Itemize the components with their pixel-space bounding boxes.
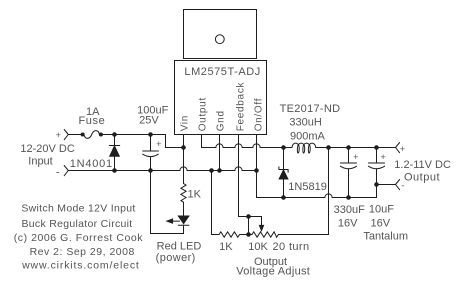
wire hop over Feedback line xyxy=(235,167,242,171)
wire: pot right end to Vout rail xyxy=(278,148,328,235)
svg-text:Rev 2: Sep 29, 2008: Rev 2: Sep 29, 2008 xyxy=(30,246,135,258)
svg-text:Switch Mode 12V Input: Switch Mode 12V Input xyxy=(21,203,135,215)
svg-text:TE2017-ND: TE2017-ND xyxy=(280,103,341,115)
svg-text:330uH: 330uH xyxy=(289,116,321,128)
svg-text:25V: 25V xyxy=(139,115,159,127)
node: C3 top on Vout rail xyxy=(375,146,379,150)
svg-text:900mA: 900mA xyxy=(290,130,326,142)
node: C3 bottom / output minus junction xyxy=(375,183,379,187)
svg-text:Buck Regulator Circuit: Buck Regulator Circuit xyxy=(21,218,132,230)
node: C2 bottom on lower ground xyxy=(347,196,351,200)
pot wiper arrow xyxy=(261,217,263,227)
svg-text:16V: 16V xyxy=(371,218,391,230)
capacitor C3 10uF 16V tantalum xyxy=(376,148,378,164)
node: R2 riser on ground rail xyxy=(210,169,214,173)
input - terminal xyxy=(64,166,68,176)
node: On/Off pin junction xyxy=(255,169,259,173)
node: FB junction branch xyxy=(247,215,251,219)
svg-text:16V: 16V xyxy=(338,218,358,230)
svg-text:Output: Output xyxy=(404,171,440,183)
inductor L1 330uH xyxy=(292,143,317,153)
wire: LED return to ground xyxy=(151,171,184,234)
node: pot riser on Vout rail xyxy=(327,146,331,150)
node: C1 top junction xyxy=(149,133,153,137)
node: Vin pin junction xyxy=(182,146,186,150)
input + terminal xyxy=(64,130,68,140)
svg-text:Input: Input xyxy=(28,155,52,167)
IC pin 2 Output wire and switch-node rail with hops xyxy=(202,135,216,148)
fuse F1 1A xyxy=(84,131,99,139)
op-amp U1 LM2575T-ADJ body xyxy=(175,61,267,135)
ground rail to On/Off pin xyxy=(242,170,256,172)
wire: input + terminal to fuse xyxy=(68,134,81,136)
ground rail continues to FB hop xyxy=(187,170,235,172)
wire hop over Vin line xyxy=(180,167,187,171)
wire: branch down to divider junction xyxy=(248,217,250,235)
svg-text:1K: 1K xyxy=(219,241,233,253)
node: divider junction xyxy=(247,233,251,237)
IC pin 5 On/Off wire xyxy=(256,135,258,171)
diode D1 1N4001 (reverse protection) xyxy=(114,135,116,146)
svg-text:(power): (power) xyxy=(156,252,196,264)
IC pin 3 Gnd wire xyxy=(219,135,221,171)
svg-text:+: + xyxy=(380,152,385,162)
svg-text:LM2575T-ADJ: LM2575T-ADJ xyxy=(184,66,260,78)
LED arrow xyxy=(171,220,180,222)
svg-text:1N5819: 1N5819 xyxy=(288,181,327,193)
output - terminal xyxy=(396,180,400,190)
IC pin 4 Feedback wire xyxy=(238,135,240,217)
svg-text:330uF: 330uF xyxy=(334,204,365,216)
svg-text:12-20V DC: 12-20V DC xyxy=(20,143,74,155)
Vout rail after inductor xyxy=(317,147,395,149)
ground rail jog down and right xyxy=(257,171,325,198)
output + terminal xyxy=(396,143,400,153)
svg-text:20 turn: 20 turn xyxy=(272,241,309,253)
node: C1 bottom / LED return junction xyxy=(149,169,153,173)
svg-text:+: + xyxy=(56,130,61,140)
node: D2 cathode on switch rail xyxy=(282,146,286,150)
svg-text:Tantalum: Tantalum xyxy=(363,231,408,243)
wire hop over pot-to-Vout riser xyxy=(325,194,332,198)
resistor R1 1K (LED series) xyxy=(181,184,186,217)
wire: to output - terminal xyxy=(377,184,396,186)
svg-text:10uF: 10uF xyxy=(369,204,394,216)
node: D2 anode on lower ground xyxy=(282,196,286,200)
ground rail (input minus) xyxy=(68,170,180,172)
svg-text:1K: 1K xyxy=(188,188,202,200)
node: Gnd pin on ground rail xyxy=(218,169,222,173)
diode D2 1N5819 (catch diode) xyxy=(283,148,285,170)
svg-text:(c) 2006 G. Forrest Cook: (c) 2006 G. Forrest Cook xyxy=(14,232,144,244)
svg-text:10K: 10K xyxy=(248,241,268,253)
IC U1 tab hole xyxy=(215,35,224,44)
svg-text:-: - xyxy=(56,166,60,178)
svg-text:+: + xyxy=(353,152,358,162)
node: diode D1 top junction xyxy=(113,133,117,137)
svg-text:Output: Output xyxy=(198,97,209,131)
svg-text:Fuse: Fuse xyxy=(78,115,105,127)
svg-text:Vin: Vin xyxy=(179,115,190,131)
resistor R2 1K (feedback lower) xyxy=(212,171,220,235)
svg-text:Voltage Adjust: Voltage Adjust xyxy=(236,266,310,278)
svg-text:Gnd: Gnd xyxy=(216,110,227,131)
capacitor C2 330uF 16V xyxy=(348,148,350,164)
wire: FB pin to wiper xyxy=(239,216,262,218)
node: C2 top on Vout rail xyxy=(347,146,351,150)
potentiometer R3 10K 20 turn xyxy=(252,232,278,237)
wire: fuse to Vin feed jog xyxy=(102,135,183,148)
svg-text:1N4001: 1N4001 xyxy=(70,158,113,170)
svg-text:+: + xyxy=(400,144,405,154)
svg-text:Feedback: Feedback xyxy=(235,81,246,131)
svg-text:Red LED: Red LED xyxy=(157,241,202,253)
svg-text:1.2-11V DC: 1.2-11V DC xyxy=(394,159,451,171)
lower ground to output minus riser xyxy=(332,185,376,198)
svg-text:www.cirkits.com/elect: www.cirkits.com/elect xyxy=(21,259,140,271)
svg-text:On/Off: On/Off xyxy=(254,98,265,131)
LED D3 red xyxy=(178,216,189,224)
IC U1 tab (TO-220 heatsink tab) xyxy=(184,10,257,59)
IC pin 1 Vin wire xyxy=(183,135,185,184)
capacitor C1 100uF 25V xyxy=(150,135,152,152)
node: D1 anode on ground rail xyxy=(113,169,117,173)
svg-text:+: + xyxy=(156,139,161,149)
